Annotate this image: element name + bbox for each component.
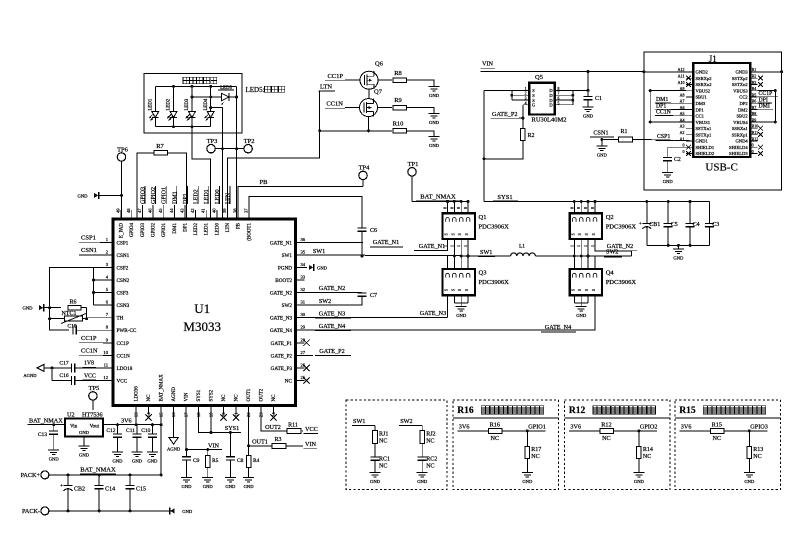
svg-text:NC: NC	[426, 463, 434, 469]
svg-text:GND: GND	[417, 479, 428, 484]
svg-text:M3033: M3033	[183, 319, 221, 334]
svg-text:CB1: CB1	[649, 222, 660, 228]
svg-text:CC1P: CC1P	[759, 91, 773, 97]
svg-text:PACK+: PACK+	[21, 472, 41, 479]
svg-text:6: 6	[558, 97, 560, 101]
svg-text:S: S	[458, 233, 462, 235]
svg-text:OUT2: OUT2	[260, 388, 265, 401]
svg-text:GATE_N3: GATE_N3	[420, 310, 446, 317]
svg-text:VBUS3: VBUS3	[733, 88, 748, 93]
svg-text:PDC3906X: PDC3906X	[479, 223, 510, 230]
svg-text:1: 1	[525, 87, 527, 91]
svg-text:LTN: LTN	[226, 223, 231, 233]
svg-text:S: S	[592, 233, 596, 235]
svg-text:C13: C13	[38, 432, 47, 438]
svg-text:S: S	[451, 289, 455, 291]
svg-text:OUT1: OUT1	[247, 388, 252, 401]
svg-text:GND2: GND2	[696, 70, 709, 75]
svg-text:8: 8	[570, 207, 574, 209]
svg-text:49: 49	[116, 208, 121, 213]
svg-text:SSRXa1: SSRXa1	[732, 126, 749, 131]
svg-text:B10: B10	[752, 124, 759, 129]
svg-text:PB: PB	[237, 222, 242, 229]
svg-text:CC1N: CC1N	[117, 353, 131, 359]
svg-text:R15: R15	[679, 406, 696, 416]
svg-text:CSP1: CSP1	[657, 134, 670, 140]
svg-text:GATE_N4: GATE_N4	[319, 323, 345, 330]
svg-text:AGND: AGND	[23, 373, 37, 378]
svg-text:AGND: AGND	[172, 387, 177, 402]
svg-text:NC: NC	[272, 394, 277, 402]
svg-text:GND: GND	[429, 93, 440, 98]
svg-text:GPIO1: GPIO1	[162, 223, 167, 238]
svg-text:R12: R12	[601, 422, 611, 429]
svg-text:VCC: VCC	[117, 379, 128, 385]
svg-text:GND: GND	[79, 453, 90, 458]
svg-text:R12: R12	[569, 406, 586, 416]
svg-text:A11: A11	[678, 74, 685, 79]
svg-text:GND1: GND1	[696, 139, 709, 144]
svg-text:VIN: VIN	[208, 442, 220, 449]
svg-text:DP1: DP1	[183, 223, 188, 232]
svg-text:C17: C17	[59, 361, 68, 367]
svg-text:VBUS1: VBUS1	[696, 120, 711, 125]
svg-text:RJ2: RJ2	[426, 431, 435, 437]
svg-text:A1: A1	[680, 136, 685, 141]
svg-text:LED3: LED3	[185, 98, 190, 110]
svg-text:C4: C4	[693, 222, 700, 228]
svg-text:PB: PB	[260, 179, 269, 186]
svg-text:GATE_P2: GATE_P2	[492, 111, 517, 118]
svg-text:GPIO3: GPIO3	[140, 187, 146, 204]
svg-text:1: 1	[450, 245, 454, 247]
svg-text:B5: B5	[752, 92, 757, 97]
svg-text:A10: A10	[678, 80, 685, 85]
svg-text:RJ1: RJ1	[379, 431, 388, 437]
svg-text:CSN1: CSN1	[593, 129, 608, 136]
svg-text:VBUS2: VBUS2	[696, 88, 711, 93]
svg-text:PDC3906X: PDC3906X	[606, 279, 637, 286]
svg-text:R2: R2	[528, 133, 535, 139]
svg-text:SSRXn2: SSRXn2	[696, 82, 713, 87]
svg-text:CC1P: CC1P	[327, 73, 343, 80]
svg-text:3: 3	[525, 97, 527, 101]
svg-text:8: 8	[450, 207, 454, 209]
svg-text:HT7536: HT7536	[82, 412, 103, 419]
svg-text:GATE_P2: GATE_P2	[319, 348, 344, 355]
svg-text:Q5: Q5	[535, 74, 543, 81]
svg-text:CSF2: CSF2	[117, 265, 129, 271]
svg-text:2: 2	[525, 92, 527, 96]
svg-text:SHIELD1: SHIELD1	[696, 145, 715, 150]
svg-text:30: 30	[301, 312, 306, 317]
svg-text:S: S	[451, 233, 455, 235]
svg-text:GND: GND	[597, 153, 608, 158]
svg-text:SW1: SW1	[480, 249, 492, 256]
svg-text:GATE_N3: GATE_N3	[319, 310, 345, 317]
svg-text:A3: A3	[680, 124, 685, 129]
svg-text:5: 5	[558, 101, 560, 105]
svg-text:10: 10	[103, 350, 108, 355]
svg-text:C3: C3	[712, 222, 719, 228]
svg-text:C9: C9	[193, 458, 200, 464]
svg-text:GPIO2: GPIO2	[152, 223, 157, 238]
svg-text:GPIO2: GPIO2	[151, 187, 157, 204]
svg-text:LED4: LED4	[204, 98, 209, 110]
svg-text:Q4: Q4	[606, 270, 615, 277]
svg-text:GND: GND	[429, 143, 440, 148]
svg-text:VIN: VIN	[305, 441, 317, 448]
svg-text:U1: U1	[194, 301, 210, 316]
svg-text:C2: C2	[674, 157, 681, 163]
svg-text:Q2: Q2	[606, 214, 614, 221]
svg-text:SYS1: SYS1	[225, 425, 239, 432]
svg-text:48: 48	[126, 208, 131, 213]
svg-text:CC1N: CC1N	[656, 110, 672, 116]
svg-text:R8: R8	[394, 70, 402, 77]
svg-text:R10: R10	[393, 120, 404, 127]
svg-text:BAT_NMAX: BAT_NMAX	[160, 374, 165, 402]
svg-text:LED2: LED2	[167, 98, 172, 110]
svg-text:S: S	[465, 233, 469, 235]
svg-text:GATE_N2: GATE_N2	[270, 291, 293, 297]
svg-text:DP1: DP1	[656, 103, 666, 109]
svg-text:8: 8	[591, 207, 595, 209]
svg-text:S: S	[585, 233, 589, 235]
svg-text:SHIELD3: SHIELD3	[729, 151, 748, 156]
svg-text:GATE_N1: GATE_N1	[419, 243, 445, 250]
svg-text:GATE_P2: GATE_P2	[271, 353, 293, 359]
svg-text:11: 11	[104, 362, 109, 367]
svg-text:GND: GND	[673, 256, 684, 261]
svg-text:34: 34	[301, 262, 306, 267]
svg-text:0: 0	[683, 149, 685, 154]
svg-text:U2: U2	[67, 412, 75, 419]
svg-text:R7: R7	[156, 143, 164, 150]
svg-text:L1: L1	[519, 244, 525, 250]
svg-text:R4: R4	[253, 458, 260, 464]
svg-text:R14: R14	[643, 447, 653, 453]
svg-text:36: 36	[301, 237, 306, 242]
svg-text:CSN1: CSN1	[81, 247, 97, 254]
svg-text:1V8: 1V8	[84, 361, 94, 367]
svg-text:3V6: 3V6	[459, 424, 470, 431]
svg-text:8: 8	[584, 207, 588, 209]
svg-text:S: S	[578, 289, 582, 291]
svg-text:LED0: LED0	[215, 189, 221, 204]
svg-text:SW1: SW1	[282, 253, 293, 259]
svg-text:PACK-: PACK-	[22, 508, 40, 515]
svg-text:TP1: TP1	[408, 161, 419, 168]
svg-text:SSRXp2: SSRXp2	[696, 76, 713, 81]
svg-text:R3: R3	[274, 437, 281, 443]
svg-text:OUT2: OUT2	[265, 424, 281, 431]
svg-text:S: S	[592, 289, 596, 291]
svg-text:NC: NC	[602, 435, 611, 442]
svg-text:C10: C10	[141, 428, 150, 434]
svg-text:OUT1: OUT1	[252, 439, 268, 446]
svg-text:GATE_N1: GATE_N1	[270, 240, 293, 246]
svg-text:GATE_P3: GATE_P3	[271, 366, 293, 372]
svg-text:CC1N: CC1N	[81, 348, 98, 355]
svg-text:GND: GND	[182, 484, 193, 489]
svg-text:S: S	[585, 289, 589, 291]
svg-text:PDC3906X: PDC3906X	[606, 223, 637, 230]
svg-text:GND: GND	[456, 313, 467, 318]
svg-text:CSN3: CSN3	[117, 303, 130, 309]
svg-text:CSF3: CSF3	[117, 291, 129, 297]
svg-text:GND: GND	[79, 430, 90, 435]
svg-text:GND4: GND4	[735, 139, 748, 144]
svg-text:LED1: LED1	[204, 189, 210, 204]
svg-text:1: 1	[577, 245, 581, 247]
svg-text:GPIO1: GPIO1	[528, 424, 546, 431]
svg-text:GND: GND	[113, 459, 124, 464]
svg-text:Q1: Q1	[479, 214, 487, 221]
svg-text:29: 29	[301, 325, 306, 330]
svg-text:3V6: 3V6	[570, 424, 581, 431]
svg-text:GND: GND	[634, 479, 645, 484]
svg-text:(BOOT1: (BOOT1	[247, 223, 252, 241]
svg-text:DM1: DM1	[656, 97, 668, 103]
svg-text:R15: R15	[712, 422, 722, 429]
svg-text:BAT_NMAX: BAT_NMAX	[420, 193, 456, 200]
svg-text:SSRXp1: SSRXp1	[732, 132, 749, 137]
svg-text:GPIO2: GPIO2	[640, 424, 658, 431]
svg-text:CC1P: CC1P	[117, 341, 130, 347]
svg-text:3V6: 3V6	[121, 417, 132, 424]
svg-text:TP4: TP4	[359, 165, 371, 172]
svg-text:GATE_P1: GATE_P1	[271, 341, 293, 347]
svg-text:TP6: TP6	[117, 146, 129, 153]
svg-text:NC: NC	[753, 454, 761, 460]
svg-text:R16: R16	[490, 422, 500, 429]
svg-text:SW2: SW2	[319, 298, 331, 305]
svg-text:B7: B7	[752, 105, 757, 110]
svg-text:SSTXp2: SSTXp2	[732, 76, 749, 81]
svg-text:1: 1	[570, 245, 574, 247]
svg-text:31: 31	[301, 300, 306, 305]
svg-text:B4: B4	[752, 86, 757, 91]
svg-text:R9: R9	[394, 97, 402, 104]
svg-text:R16: R16	[457, 406, 474, 416]
svg-text:SYS1: SYS1	[197, 389, 202, 401]
svg-text:+: +	[60, 483, 63, 489]
svg-text:SSTXn1: SSTXn1	[696, 126, 713, 131]
svg-text:SW2: SW2	[400, 418, 412, 425]
svg-text:S: S	[445, 289, 449, 291]
svg-text:CC2: CC2	[739, 95, 748, 100]
svg-text:Q3: Q3	[479, 270, 487, 277]
svg-text:NC: NC	[531, 454, 539, 460]
svg-text:47: 47	[137, 208, 142, 213]
svg-text:8: 8	[558, 87, 560, 91]
svg-text:GND: GND	[203, 484, 214, 489]
svg-text:GPIO3: GPIO3	[141, 223, 146, 238]
svg-text:46: 46	[148, 208, 153, 213]
svg-text:GND: GND	[78, 193, 89, 198]
svg-text:Vout: Vout	[90, 425, 100, 430]
svg-text:1: 1	[457, 245, 461, 247]
svg-text:LED1: LED1	[149, 98, 154, 110]
svg-text:GND: GND	[744, 479, 755, 484]
svg-text:BAT_NMAX: BAT_NMAX	[29, 417, 63, 424]
svg-text:GND: GND	[663, 179, 674, 184]
svg-text:NC: NC	[643, 454, 651, 460]
svg-text:B6: B6	[752, 99, 757, 104]
svg-text:GND: GND	[522, 479, 533, 484]
svg-text:41: 41	[201, 208, 206, 213]
svg-text:S: S	[571, 233, 575, 235]
svg-text:C7: C7	[370, 293, 377, 299]
svg-text:PGND: PGND	[278, 265, 292, 271]
svg-text:LTN: LTN	[226, 192, 232, 204]
svg-text:DM3: DM3	[696, 101, 706, 106]
svg-text:C11: C11	[126, 428, 135, 434]
svg-text:SHIELD2: SHIELD2	[696, 151, 715, 156]
svg-text:GPIO4: GPIO4	[130, 223, 135, 238]
svg-text:LDO18: LDO18	[117, 366, 133, 372]
svg-text:GATE_N2: GATE_N2	[319, 285, 345, 292]
svg-text:R6: R6	[69, 300, 76, 306]
svg-text:GND: GND	[576, 313, 587, 318]
svg-text:33: 33	[301, 275, 306, 280]
svg-text:GND: GND	[23, 306, 34, 311]
svg-text:C1: C1	[595, 96, 602, 102]
svg-text:SW1: SW1	[353, 418, 365, 425]
svg-text:GND: GND	[429, 120, 440, 125]
svg-text:8: 8	[464, 207, 468, 209]
svg-text:SSTXp1: SSTXp1	[696, 132, 713, 137]
svg-text:NC: NC	[147, 394, 152, 402]
svg-text:DM1: DM1	[173, 223, 178, 234]
svg-text:NC: NC	[712, 435, 721, 442]
svg-text:S: S	[465, 289, 469, 291]
svg-text:SSTXn2: SSTXn2	[732, 82, 749, 87]
svg-text:CSP1: CSP1	[81, 235, 96, 242]
svg-text:C8: C8	[237, 458, 244, 464]
svg-text:GND: GND	[49, 457, 60, 462]
svg-text:SW1: SW1	[313, 248, 325, 255]
svg-text:VIN: VIN	[482, 60, 494, 67]
svg-text:Vin: Vin	[70, 425, 78, 430]
svg-text:R11: R11	[288, 423, 298, 429]
svg-text:NC: NC	[379, 438, 387, 444]
svg-text:R13: R13	[753, 447, 763, 453]
svg-text:DPI: DPI	[759, 97, 768, 103]
svg-text:S: S	[571, 289, 575, 291]
svg-text:CC1P: CC1P	[81, 335, 97, 342]
svg-text:+: +	[639, 221, 642, 227]
svg-text:Q6: Q6	[375, 61, 384, 68]
svg-text:B8: B8	[752, 111, 757, 116]
svg-text:GPIO1: GPIO1	[162, 187, 168, 204]
svg-text:GND: GND	[583, 114, 594, 119]
svg-text:GPIO3: GPIO3	[750, 424, 768, 431]
svg-text:TP5: TP5	[88, 385, 99, 392]
svg-text:8: 8	[457, 207, 461, 209]
svg-text:NC: NC	[222, 394, 227, 402]
svg-text:VCC: VCC	[305, 426, 318, 433]
svg-text:LDO36: LDO36	[135, 386, 140, 402]
svg-text:VBUS4: VBUS4	[733, 120, 748, 125]
svg-text:NC: NC	[285, 379, 293, 385]
svg-text:VIN: VIN	[185, 392, 190, 401]
svg-text:GND: GND	[132, 459, 143, 464]
svg-text:1: 1	[464, 245, 468, 247]
svg-text:E_PAD: E_PAD	[120, 223, 125, 238]
svg-text:S: S	[445, 233, 449, 235]
svg-text:GATE_N2: GATE_N2	[607, 243, 633, 250]
svg-text:1: 1	[584, 245, 588, 247]
svg-text:LED0: LED0	[215, 223, 220, 236]
svg-text:Q7: Q7	[374, 89, 383, 96]
svg-text:A8: A8	[680, 92, 685, 97]
svg-text:GATE_N4: GATE_N4	[270, 328, 293, 334]
svg-text:B3: B3	[752, 80, 757, 85]
svg-text:RU30L40M2: RU30L40M2	[532, 117, 567, 124]
svg-text:C15: C15	[136, 487, 146, 493]
svg-text:GND3: GND3	[735, 70, 748, 75]
svg-text:1: 1	[591, 245, 595, 247]
svg-text:SW2: SW2	[282, 303, 293, 309]
svg-text:LED2: LED2	[194, 189, 200, 204]
svg-text:C18: C18	[67, 324, 76, 330]
svg-text:0: 0	[752, 143, 754, 148]
svg-text:8: 8	[444, 207, 448, 209]
svg-text:CC1: CC1	[696, 114, 705, 119]
svg-text:44: 44	[169, 208, 174, 213]
svg-text:GND: GND	[317, 265, 328, 270]
svg-text:32: 32	[301, 287, 306, 292]
svg-text:RC1: RC1	[379, 456, 390, 462]
svg-text:B2: B2	[752, 74, 757, 79]
svg-text:AGND: AGND	[167, 447, 181, 452]
svg-text:RC2: RC2	[426, 456, 437, 462]
svg-text:GND: GND	[182, 509, 193, 514]
svg-text:GND: GND	[147, 459, 158, 464]
svg-text:S: S	[578, 233, 582, 235]
svg-text:DMI: DMI	[759, 104, 770, 110]
svg-text:R5: R5	[212, 458, 219, 464]
svg-text:37: 37	[243, 208, 248, 213]
svg-text:DP2: DP2	[740, 101, 749, 106]
svg-text:GATE_N4: GATE_N4	[545, 324, 571, 331]
svg-text:DP1: DP1	[183, 193, 189, 204]
svg-text:C5: C5	[671, 222, 678, 228]
svg-text:GND: GND	[370, 479, 381, 484]
svg-text:0: 0	[752, 149, 754, 154]
svg-text:BOOT2: BOOT2	[275, 278, 292, 284]
svg-text:LED5:: LED5:	[246, 86, 265, 94]
svg-text:VCC: VCC	[84, 373, 96, 379]
svg-text:CSP1: CSP1	[117, 240, 129, 246]
svg-text:CB2: CB2	[74, 487, 85, 493]
svg-text:DM1: DM1	[172, 191, 178, 204]
svg-text:8: 8	[577, 207, 581, 209]
svg-text:GND: GND	[244, 484, 255, 489]
svg-text:43: 43	[179, 208, 184, 213]
svg-text:S: S	[458, 289, 462, 291]
svg-text:B11: B11	[752, 130, 759, 135]
svg-text:DP1: DP1	[696, 107, 705, 112]
svg-text:35: 35	[301, 249, 306, 254]
svg-text:R17: R17	[531, 447, 541, 453]
svg-text:SYS2: SYS2	[210, 389, 215, 401]
svg-text:LED2: LED2	[194, 223, 199, 236]
svg-text:GATE_N1: GATE_N1	[373, 239, 399, 246]
svg-text:TP2: TP2	[244, 138, 255, 145]
